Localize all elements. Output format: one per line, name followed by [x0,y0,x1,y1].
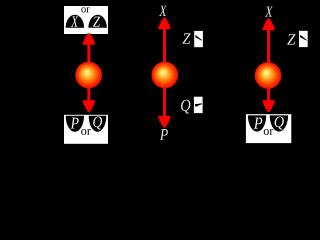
arrowhead down (middle) [158,116,170,128]
arrow shaft (right) [267,28,270,103]
label Z (top-left dome) [93,17,100,27]
detector box top-left (X or Z) [64,6,108,34]
label X (right top) [265,7,273,17]
label P (bottom-left dome) [71,118,79,129]
label X (middle top) [159,6,167,16]
arrowhead down (right) [263,100,275,112]
label or (bottom-left box) [81,129,91,135]
meter dome Z (top-left box) [88,15,107,28]
arrowhead up (middle) [158,18,170,30]
source ball (right) [255,62,282,89]
arrowhead down (left) [83,100,95,112]
label Q (middle side) [181,100,190,114]
label Z (right side) [287,34,295,45]
meter dome P (bottom-left box) [66,116,84,132]
meter dome X (top-left box) [66,15,85,28]
meter dome P (bottom-right box) [248,115,266,131]
label P (bottom-right dome) [254,118,263,129]
label P (middle bottom) [160,129,168,140]
label or (top-left box) [81,7,89,12]
label Q (bottom-right dome) [275,117,284,130]
source ball (middle) [151,62,178,89]
meter icon Z (middle side) [194,31,203,47]
arrow shaft (middle) [163,26,166,119]
label Z (middle side) [182,33,190,43]
label or (bottom-right box) [264,129,274,135]
arrowhead up (left) [83,33,95,45]
label X (top-left dome) [71,16,78,26]
meter dome Q (bottom-right box) [270,115,288,131]
arrowhead up (right) [263,19,275,31]
meter icon Q (middle side) [194,97,203,113]
meter icon Z (right side) [299,31,308,47]
detector box bottom-left (P or Q) [64,115,108,144]
meter dome Q (bottom-left box) [89,116,107,132]
detector box bottom-right (P or Q) [246,114,291,143]
arrow shaft (left) [87,40,90,106]
label Q (bottom-left dome) [93,117,102,130]
source ball (left) [75,62,102,89]
